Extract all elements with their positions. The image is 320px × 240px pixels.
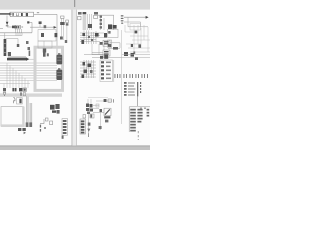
header marks (140, 108, 142, 109)
scanner margin top band (0, 0, 150, 10)
connector CN16 (104, 55, 108, 59)
legend list LG1 (124, 82, 136, 96)
connector CN14 (113, 47, 118, 50)
legend bar LG2 (137, 82, 138, 96)
diag box DB1 (104, 108, 111, 115)
label no (37, 12, 39, 13)
relay K1 (27, 21, 29, 23)
connector CN21 (133, 51, 135, 54)
connector CN20 (138, 44, 141, 47)
gutter left page edge (71, 10, 74, 146)
wire W32 (0, 35, 22, 37)
wire dashes (16, 26, 18, 29)
separator line (88, 97, 108, 99)
label L4 (100, 42, 103, 45)
connector CN28 (65, 40, 67, 43)
wire W3 (7, 25, 12, 28)
wire W26 (93, 112, 104, 114)
igniter Q1 (43, 49, 46, 53)
wire W1 (34, 13, 57, 15)
ECU box U1 (35, 47, 63, 90)
relay box K2 (38, 30, 56, 41)
wire W27 (113, 60, 115, 82)
dashed wire W22 (137, 131, 139, 140)
pin label 5 (113, 99, 114, 102)
wire W23 (96, 100, 112, 102)
arrowhead A1 (9, 13, 12, 16)
ground G2 (87, 129, 90, 132)
harness ribbon H1 (0, 93, 62, 96)
connector cap CN11 (83, 12, 87, 14)
wire bus W5 (0, 32, 32, 34)
terminal strip TS1 (80, 119, 86, 134)
ground bus GB1 ticks (9, 56, 25, 58)
fuse F2 (16, 13, 18, 16)
ground G1 (3, 92, 6, 95)
solenoid SL1 (61, 16, 64, 18)
wire W17 (92, 53, 103, 55)
controller CU2 (103, 50, 110, 56)
junction box JB1 (1, 107, 23, 127)
fuse F3 (21, 13, 23, 16)
junction block J1 (4, 39, 7, 56)
wire W29 (88, 99, 91, 104)
arrowhead A4 (24, 132, 26, 135)
label block L1 (78, 12, 82, 15)
label block L2 (94, 12, 98, 15)
scanner margin bottom band (0, 146, 150, 150)
component CM4 (83, 115, 86, 119)
connector CN19 (131, 44, 133, 47)
connector CN9 (29, 122, 32, 127)
component CM5 (90, 114, 94, 118)
arrowhead A3 (54, 26, 57, 29)
ignition module cluster IM1 (86, 104, 89, 108)
wire W2 vertical (56, 14, 58, 55)
condenser C3 (50, 121, 53, 125)
ECU connector C1 (56, 55, 62, 65)
connector CN8 (26, 122, 29, 127)
connector CN7 (19, 88, 22, 91)
junction cluster JC1 (80, 33, 104, 42)
edge stub (0, 27, 3, 30)
connector CN2 (15, 25, 20, 29)
connector CN15 (135, 57, 138, 60)
resistor R2 (20, 92, 22, 95)
harness ribbon H3 (30, 103, 32, 127)
wire W24 (88, 114, 90, 134)
connector CN3 (17, 44, 20, 47)
wire W6 (4, 33, 6, 39)
controller CU1 (103, 40, 110, 46)
ignition coil pack IC1 (50, 105, 55, 110)
gutter right page edge (75, 10, 78, 146)
relay pair K7 (124, 52, 128, 56)
wires W19 (122, 54, 150, 57)
connector CN17 (104, 99, 107, 102)
wire W13 (124, 22, 141, 27)
page background (0, 0, 150, 150)
wire W20 (84, 54, 108, 56)
connector CN22 (108, 99, 112, 102)
components row R1 (3, 88, 6, 91)
wire W9 (26, 96, 28, 106)
fuse F4 (26, 13, 28, 16)
relay box K6 (108, 29, 118, 37)
ECU connector C2 (56, 70, 62, 80)
fuse table FT1 (100, 60, 113, 82)
table T2 (129, 107, 150, 132)
wire W7 (6, 39, 19, 44)
wire W14 (128, 17, 148, 27)
relay K2 contacts (41, 33, 44, 37)
fuse FB2 (108, 40, 112, 47)
sensor S2 (13, 98, 15, 104)
ground bus GB1 (7, 58, 26, 61)
wire W21 (137, 96, 139, 106)
wire W4 (29, 22, 32, 32)
wire W15 (108, 48, 120, 50)
gutter shadow tick (74, 0, 75, 7)
connector CN25 (99, 126, 102, 129)
page gutter band (72, 10, 77, 146)
wire comb (16, 29, 22, 33)
relay pair K5 (109, 25, 113, 29)
wire W30 (100, 112, 102, 130)
arrowhead A2 (26, 57, 29, 61)
grid wires top right (134, 25, 148, 52)
harness wires fan (0, 63, 57, 84)
terminal table TT1 (62, 119, 68, 136)
tick row TR1 (115, 74, 148, 78)
wire W8 (30, 26, 54, 28)
label marks (62, 136, 64, 139)
sensor cluster S1 (43, 52, 46, 56)
connector CN4 (8, 52, 11, 56)
bus W18 (92, 57, 122, 59)
wire drops right page (92, 44, 104, 55)
connector CN24 (100, 109, 103, 112)
fuse column FC1 (101, 15, 104, 30)
divider line (120, 30, 122, 124)
noise filter NF1 (40, 119, 44, 123)
box B1 (130, 24, 140, 30)
relay box K3 (38, 41, 52, 48)
bar BB1 (104, 116, 110, 118)
connector CN23 (96, 104, 99, 107)
diode D1 (6, 16, 8, 22)
sensor T1 (39, 21, 42, 24)
wire W16 (110, 43, 120, 48)
junction cluster JC2 (80, 62, 96, 77)
component marks (26, 41, 29, 44)
connector CN27 (60, 37, 63, 40)
label column L3 (121, 15, 124, 16)
wire W28 (93, 105, 99, 108)
fuse F1 (12, 13, 13, 16)
harness ribbon H2 (26, 97, 28, 127)
connector CN12 (88, 24, 92, 28)
connector CN1 (12, 26, 16, 29)
solenoid SL2 (66, 20, 69, 23)
wire drop staircase (4, 63, 28, 88)
wires W10 (88, 14, 92, 30)
connector CN6 (12, 88, 14, 91)
connector CN18 (100, 56, 103, 59)
connector CN13 (135, 31, 138, 34)
switch SW1 (17, 98, 23, 104)
connector CN5 (44, 25, 47, 28)
fuse box FB1 (10, 12, 33, 16)
wire stub (87, 133, 90, 137)
battery feed bus (0, 13, 10, 15)
wire comb2 (16, 33, 22, 36)
wire W31 (62, 26, 67, 40)
wire W11 (98, 15, 114, 30)
connector CN26 (88, 123, 91, 126)
harness ribbon H4 (83, 12, 87, 30)
wire W12 with arrow (124, 16, 146, 18)
relay K4 (108, 24, 112, 29)
connector CN10 (18, 128, 21, 131)
